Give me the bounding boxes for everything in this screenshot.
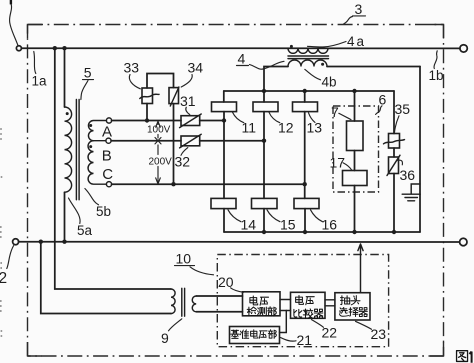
transformer T5 core bbox=[76, 100, 79, 200]
figure caption tu (图) bbox=[457, 351, 468, 362]
svg-text:B: B bbox=[102, 148, 112, 165]
leader 21 bbox=[281, 338, 297, 342]
block 21 reference voltage box bbox=[230, 327, 280, 344]
transformer T5 secondary winding section A-B bbox=[88, 121, 106, 141]
leader 1 bbox=[10, 4, 18, 45]
wire drop to varistor 35 bbox=[393, 91, 395, 134]
figure caption digit 1 (cut at edge) bbox=[469, 352, 471, 363]
tap terminal B bbox=[106, 138, 111, 143]
wire T9 lower feed from node x40.8 bbox=[41, 242, 171, 314]
text block23 tou bbox=[351, 296, 360, 305]
leader 31 bbox=[186, 107, 190, 114]
leader 1b bbox=[434, 51, 437, 69]
svg-text:15: 15 bbox=[280, 216, 296, 232]
node column12/line B bbox=[262, 139, 266, 143]
svg-text:9: 9 bbox=[161, 330, 169, 346]
leader 33 bbox=[129, 75, 140, 89]
arrow from block 23 up to bus bbox=[358, 244, 363, 293]
svg-text:20: 20 bbox=[218, 274, 234, 290]
wire distribution line y91 bbox=[224, 90, 394, 92]
svg-text:1a: 1a bbox=[32, 74, 48, 89]
text block20 bu bbox=[268, 307, 277, 316]
svg-text:22: 22 bbox=[322, 324, 338, 340]
wire T9 secondary top lead to box 20 bbox=[196, 295, 242, 297]
polarity dot T5 secondary top bbox=[89, 124, 92, 127]
wire stub to box 12 bbox=[263, 91, 265, 102]
leader 17 bbox=[343, 163, 352, 170]
wire column 11-14 bbox=[223, 112, 225, 199]
svg-text:34: 34 bbox=[188, 60, 204, 76]
wire T9 secondary bottom lead to box 20 bbox=[196, 311, 242, 313]
svg-text:33: 33 bbox=[124, 60, 140, 76]
wire line C bbox=[112, 183, 305, 185]
wire bracket joining 33 and 34 tops bbox=[147, 74, 174, 89]
dimension arrow head up at line A bbox=[156, 121, 161, 127]
terminal 1 (top left circle) bbox=[16, 46, 21, 51]
text block21 zhun bbox=[240, 330, 249, 339]
text block21 bu bbox=[268, 330, 276, 339]
node T5 primary / bottom bus bbox=[62, 240, 66, 244]
transformer T5 primary winding bbox=[65, 107, 72, 192]
text block21 ya bbox=[259, 331, 267, 338]
polarity dot T5 secondary mid bbox=[89, 145, 92, 148]
label 1 (cut at top edge) bbox=[10, 0, 12, 4]
leader 6 bbox=[376, 106, 382, 115]
node column11/line A bbox=[222, 118, 226, 122]
wire left drop x55 from top bus to transformer 9 feed bbox=[55, 48, 171, 289]
svg-text:32: 32 bbox=[175, 153, 191, 169]
leader 14 bbox=[228, 210, 241, 222]
varistor 33 body bbox=[142, 88, 153, 104]
wire column 13-16 bbox=[304, 112, 306, 199]
switch 31 body bbox=[181, 116, 200, 126]
polarity dot T5 primary bbox=[66, 112, 69, 115]
leader 5a bbox=[69, 198, 81, 224]
svg-text:5: 5 bbox=[84, 64, 92, 80]
leader 4 bbox=[250, 61, 285, 69]
leader 11 bbox=[233, 112, 244, 122]
leader 35 bbox=[394, 116, 399, 133]
svg-text:11: 11 bbox=[242, 120, 257, 136]
tap terminal C bbox=[106, 182, 111, 187]
node bus232 x394 bbox=[392, 230, 396, 234]
transformer T9 secondary winding bbox=[192, 296, 196, 312]
tap terminal A bbox=[106, 118, 111, 123]
text block21 ji bbox=[231, 330, 240, 338]
wire bottom bus line 2 bbox=[19, 241, 460, 243]
wire 33 bottom lead bbox=[146, 104, 148, 121]
leader 5b bbox=[85, 189, 99, 205]
leader 9 bbox=[169, 319, 182, 331]
box 11 bbox=[212, 102, 237, 112]
outer dash-dot enclosure border top bbox=[28, 24, 444, 26]
text block22 bi bbox=[294, 309, 302, 317]
block 22 voltage comparator box bbox=[291, 292, 326, 318]
block 20 voltage detector box bbox=[243, 292, 281, 316]
leader 34 bbox=[181, 75, 192, 88]
svg-text:C: C bbox=[102, 166, 113, 183]
node top bus x64.5 bbox=[62, 46, 66, 50]
svg-text:23: 23 bbox=[371, 326, 387, 342]
text block23 chou bbox=[341, 296, 350, 305]
wire T5 primary bottom lead to bottom bus bbox=[64, 192, 66, 242]
terminal bottom right circle bbox=[460, 238, 467, 245]
scan speckle left edge bbox=[0, 128, 3, 338]
svg-text:5b: 5b bbox=[96, 204, 111, 219]
block 23 tap selector box bbox=[335, 293, 370, 320]
outer dash-dot enclosure border left bbox=[27, 25, 29, 357]
box 12 bbox=[253, 102, 278, 112]
svg-text:4: 4 bbox=[238, 50, 246, 66]
svg-text:1b: 1b bbox=[429, 68, 444, 83]
svg-text:6: 6 bbox=[379, 91, 387, 107]
transformer T9 primary winding bbox=[171, 289, 175, 314]
fuse 34 diagonal bbox=[170, 87, 179, 106]
text block22 jiao bbox=[303, 309, 313, 318]
crossing x-mark on line B bbox=[155, 138, 161, 144]
node bottom bus x40.8 bbox=[39, 240, 43, 244]
leader 16 bbox=[311, 210, 323, 222]
leader 12 bbox=[269, 112, 280, 122]
text block23 qi2 bbox=[359, 308, 367, 317]
ground symbol bbox=[402, 194, 420, 201]
switch 32 body bbox=[181, 136, 200, 146]
varistor 33 wavy stroke bbox=[140, 94, 159, 98]
wire top bus line 1-3 bbox=[21, 47, 460, 49]
leader 1a bbox=[34, 52, 36, 74]
leader 2 bbox=[7, 246, 14, 269]
text block21 dian bbox=[251, 330, 258, 338]
polarity dot 4b bbox=[321, 63, 324, 66]
svg-text:5a: 5a bbox=[77, 223, 93, 238]
svg-text:21: 21 bbox=[297, 332, 313, 348]
transformer T5 secondary winding section B-C bbox=[88, 141, 106, 184]
leader 4b bbox=[305, 69, 321, 80]
node 33/line A bbox=[145, 118, 149, 122]
svg-text:4b: 4b bbox=[322, 74, 337, 89]
ground stub wire bbox=[411, 184, 420, 194]
inductor 4b winding (humps above line) bbox=[288, 60, 327, 67]
svg-text:100V: 100V bbox=[147, 125, 171, 136]
svg-text:7: 7 bbox=[331, 104, 339, 120]
leader 22 bbox=[312, 320, 324, 328]
terminal 2 (bottom left circle) bbox=[13, 239, 19, 245]
component 7 body bbox=[347, 121, 364, 151]
wire stub to box 13 bbox=[304, 91, 306, 102]
component 36 body bbox=[389, 157, 399, 174]
text block22 qi bbox=[314, 309, 323, 318]
svg-text:3: 3 bbox=[355, 1, 363, 17]
svg-text:14: 14 bbox=[241, 216, 257, 232]
text block23 xuan bbox=[340, 307, 349, 316]
svg-text:16: 16 bbox=[322, 216, 338, 232]
leader 3 bbox=[344, 17, 353, 24]
box 14 bbox=[211, 198, 236, 208]
wire right side drop x420 (4b to inner bus) bbox=[419, 67, 421, 233]
wire 4b right lead to right-side drop bbox=[327, 66, 420, 68]
node bus232 x305 bbox=[303, 230, 307, 234]
leader 23 bbox=[356, 321, 372, 329]
leader 13 bbox=[309, 113, 316, 123]
dimension arrow head down at line C bbox=[156, 167, 161, 184]
wire connectors 22-23 bbox=[325, 300, 335, 306]
svg-text:36: 36 bbox=[400, 167, 416, 183]
terminal top right circle bbox=[460, 45, 467, 52]
polarity dot 4a bbox=[290, 45, 293, 48]
svg-text:31: 31 bbox=[180, 93, 196, 109]
text block22 ya bbox=[306, 297, 314, 305]
leader 36 bbox=[398, 160, 403, 165]
text block20 dian bbox=[250, 296, 258, 305]
wire box16 bottom lead bbox=[304, 209, 306, 232]
varistor 35 body bbox=[389, 134, 400, 149]
wire 34 bottom lead down to line C bbox=[173, 104, 175, 185]
outer dash-dot enclosure border right bbox=[443, 25, 445, 357]
node distribution x304.7 bbox=[303, 89, 307, 93]
leader 20 bbox=[231, 288, 244, 293]
node 34/line C bbox=[171, 182, 175, 186]
wire link 21 to comparator bbox=[280, 311, 287, 333]
wire connectors 20-22 bbox=[280, 300, 291, 311]
leader 4a bbox=[308, 42, 347, 48]
box 15 bbox=[252, 198, 278, 208]
dimension shaft below B bbox=[157, 145, 159, 155]
box 13 bbox=[293, 102, 318, 112]
wire 36 bottom lead bbox=[393, 174, 395, 233]
wire stub to component 7 bbox=[354, 91, 356, 121]
leader 10 bbox=[190, 267, 214, 275]
inductor 4a winding (humps under top bus) bbox=[288, 48, 328, 53]
wire line B bbox=[111, 140, 264, 142]
underline 10 bbox=[175, 265, 195, 267]
wire stub to box 11 bbox=[223, 91, 225, 102]
wire 17 bottom lead bbox=[354, 186, 356, 233]
wire inner bottom bus y232 bbox=[224, 231, 420, 233]
outer dash-dot enclosure border bottom bbox=[28, 355, 444, 357]
leader 15 bbox=[267, 210, 280, 222]
node distribution x264 bbox=[262, 89, 266, 93]
underline 4 bbox=[237, 65, 249, 67]
wire box15 bottom lead bbox=[263, 209, 265, 232]
text block20 ya bbox=[260, 297, 268, 305]
wire 4b left lead to node x264 bbox=[264, 67, 288, 92]
wire line A bbox=[112, 120, 224, 122]
text block23 ze bbox=[349, 308, 358, 317]
transformer 4 core bbox=[288, 56, 329, 59]
dashed box 10 bbox=[217, 255, 388, 347]
leader 7 bbox=[339, 113, 351, 119]
dashed box 6 bbox=[333, 106, 379, 192]
text block20 jian bbox=[247, 307, 256, 316]
wire column 12-15 bbox=[263, 112, 265, 199]
svg-text:12: 12 bbox=[278, 120, 294, 136]
svg-text:A: A bbox=[102, 124, 112, 141]
wire drop x64.5 from top bus to transformer 5 primary bbox=[64, 48, 66, 107]
svg-text:200V: 200V bbox=[149, 157, 173, 168]
node top bus x55 bbox=[53, 46, 57, 50]
box 16 bbox=[294, 198, 319, 208]
svg-text:4a: 4a bbox=[347, 34, 366, 49]
wire 7 to 17 bbox=[354, 151, 356, 171]
leader 5 bbox=[81, 81, 88, 100]
svg-text:35: 35 bbox=[395, 101, 411, 117]
svg-text:2: 2 bbox=[0, 270, 7, 287]
node bus232 x264 bbox=[262, 230, 266, 234]
text block20 ce bbox=[258, 307, 267, 316]
node distribution x354.5 bbox=[352, 89, 356, 93]
fuse 34 body bbox=[169, 88, 179, 104]
switch 32 diagonal bbox=[180, 134, 202, 148]
svg-text:10: 10 bbox=[176, 250, 192, 266]
component 36 diagonal bbox=[387, 155, 400, 175]
varistor 35 wavy stroke bbox=[384, 140, 405, 144]
wire 35 to 36 bbox=[393, 148, 395, 157]
dimension shaft between texts bbox=[157, 135, 159, 139]
component 17 body bbox=[343, 171, 368, 186]
text block22 dian bbox=[296, 296, 304, 305]
node bus232 x354.5 bbox=[352, 230, 356, 234]
wire box14 bottom lead bbox=[223, 209, 225, 232]
underline 3 bbox=[353, 15, 366, 17]
transformer T9 core bbox=[182, 288, 185, 316]
underline 5 bbox=[83, 79, 94, 81]
leader 32 bbox=[181, 148, 188, 156]
node column13/line C bbox=[303, 182, 307, 186]
switch 31 diagonal bbox=[180, 114, 202, 128]
